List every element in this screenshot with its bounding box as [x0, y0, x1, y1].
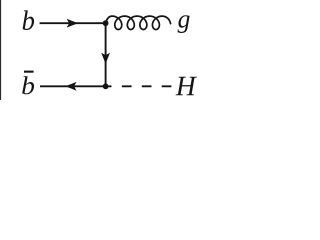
Higgs dashed line [106, 85, 172, 87]
page edge rule [0, 0, 1, 100]
gluon curly line [106, 16, 171, 29]
arrow on bbar line [65, 82, 76, 91]
arrow on b line [67, 19, 78, 28]
label b [23, 10, 34, 30]
label bbar [22, 76, 34, 94]
bbar overline [24, 71, 34, 73]
vertex bottom [103, 83, 109, 89]
label g [178, 15, 190, 33]
internal quark propagator [105, 23, 107, 86]
incoming quark b line [40, 22, 106, 24]
vertex top [103, 20, 109, 26]
label H [176, 77, 197, 95]
incoming antiquark bbar line [40, 85, 106, 87]
arrow on propagator [101, 53, 110, 64]
